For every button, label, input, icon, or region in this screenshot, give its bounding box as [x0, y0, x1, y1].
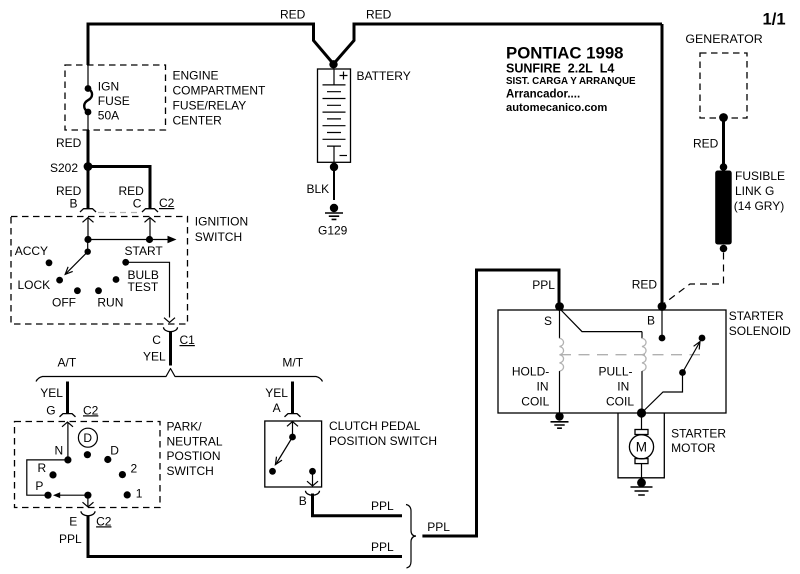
svg-text:RED: RED: [280, 8, 306, 22]
svg-text:YEL: YEL: [265, 386, 288, 400]
svg-text:COIL: COIL: [521, 395, 549, 409]
wire motor to ground: [641, 464, 643, 479]
wire S to hold-in coil: [559, 307, 561, 338]
wire YEL M/T branch to clutch switch A: [291, 382, 294, 414]
svg-text:M/T: M/T: [282, 355, 303, 369]
wire into fuse (thin inside box): [87, 65, 89, 88]
wire RED S202 to ignition B pin: [87, 167, 90, 209]
brace splitting YEL to A/T and M/T branches: [36, 369, 323, 382]
svg-text:START: START: [125, 244, 164, 258]
battery: [318, 69, 351, 162]
node battery positive junction: [329, 60, 337, 68]
wire hold-in coil to ground: [559, 371, 561, 413]
fuse IGN FUSE 50A: [84, 85, 92, 115]
svg-text:C2: C2: [159, 196, 175, 210]
svg-text:M: M: [636, 440, 647, 455]
svg-text:G129: G129: [318, 224, 348, 238]
node B terminal: [658, 302, 667, 311]
svg-text:1: 1: [136, 487, 143, 501]
connector female half at C1 (inverted): [164, 327, 178, 332]
svg-text:POSTION: POSTION: [167, 449, 221, 463]
solenoid switch arm: [642, 373, 683, 414]
svg-text:BLK: BLK: [307, 182, 330, 196]
engine compartment fuse/relay center (dashed box): [65, 65, 166, 130]
svg-text:OFF: OFF: [52, 296, 76, 310]
svg-text:1/1: 1/1: [763, 10, 786, 29]
wire START contact to C1 exit: [126, 262, 170, 317]
svg-text:C1: C1: [180, 333, 196, 347]
node solenoid output / motor feed: [637, 408, 646, 417]
wire common to E exit: [87, 495, 89, 506]
node fusible link top: [720, 163, 728, 171]
pin + battery positive: [340, 72, 348, 80]
contact D: [104, 456, 111, 463]
male arrow into A: [287, 422, 298, 427]
svg-text:C2: C2: [96, 514, 112, 528]
svg-text:SOLENOID: SOLENOID: [729, 324, 791, 338]
wire YEL A/T branch to park/neutral G: [66, 382, 69, 414]
contact 2: [119, 471, 126, 478]
svg-text:IGN: IGN: [98, 79, 119, 93]
svg-text:PPL: PPL: [371, 499, 394, 513]
pin - battery negative: [340, 155, 348, 157]
svg-text:D: D: [83, 431, 92, 445]
contact LOCK: [56, 277, 63, 284]
wire RED fuse to S202: [87, 130, 90, 167]
node generator output: [719, 113, 728, 122]
contact START: [122, 259, 129, 266]
male arrow out at C1: [164, 318, 175, 323]
connector female half at E (inverted): [81, 511, 95, 516]
wiper arrow common toward P: [60, 494, 88, 496]
wiper arm toward lower contact: [276, 437, 293, 464]
svg-text:TEST: TEST: [128, 280, 159, 294]
wire motor feed: [641, 413, 643, 430]
svg-text:IN: IN: [617, 380, 629, 394]
connector female half at pin B: [80, 209, 96, 212]
contact R: [49, 471, 56, 478]
wire PPL clutch B to brace: [313, 494, 403, 516]
svg-text:ENGINE: ENGINE: [173, 69, 219, 83]
svg-text:PPL: PPL: [371, 540, 394, 554]
svg-text:POSITION SWITCH: POSITION SWITCH: [329, 434, 437, 448]
ground G129: [325, 204, 343, 220]
svg-text:PPL: PPL: [427, 520, 450, 534]
svg-text:PPL: PPL: [532, 278, 555, 292]
wiper arm toward LOCK: [65, 252, 88, 275]
male arrow out at E: [83, 502, 94, 507]
svg-text:ACCY: ACCY: [15, 244, 48, 258]
svg-text:S202: S202: [50, 161, 78, 175]
svg-text:COIL: COIL: [606, 395, 634, 409]
contact upper fixed: [699, 335, 706, 342]
svg-text:YEL: YEL: [143, 349, 166, 363]
svg-text:LOCK: LOCK: [18, 278, 51, 292]
wire PPL park/neutral E to brace: [88, 516, 402, 557]
svg-text:B: B: [299, 494, 307, 508]
svg-text:R: R: [38, 461, 47, 475]
svg-text:FUSE/RELAY: FUSE/RELAY: [173, 99, 247, 113]
wire RED generator drop to starter solenoid B junction: [661, 24, 664, 306]
contact OFF: [74, 287, 81, 294]
svg-text:STARTER: STARTER: [729, 309, 784, 323]
svg-text:MOTOR: MOTOR: [671, 441, 716, 455]
generator (dashed box): [700, 53, 747, 118]
starter motor M: [629, 430, 653, 464]
ignition switch (dashed box): [11, 217, 188, 325]
pull-in coil: [641, 332, 643, 339]
wire PPL merged to solenoid S terminal: [422, 270, 559, 536]
svg-text:NEUTRAL: NEUTRAL: [167, 434, 223, 448]
svg-text:C: C: [152, 333, 161, 347]
node switch common: [84, 492, 91, 499]
park/neutral position switch (dashed box): [15, 422, 161, 508]
contact 1: [124, 491, 131, 498]
wire fuse to box edge (thin inside box): [87, 112, 89, 130]
svg-text:RED: RED: [366, 8, 392, 22]
svg-text:COMPARTMENT: COMPARTMENT: [173, 84, 267, 98]
node ignition feed C: [146, 236, 153, 243]
svg-text:FUSE: FUSE: [98, 94, 130, 108]
node fusible link bottom: [720, 245, 728, 253]
svg-text:LINK G: LINK G: [735, 184, 774, 198]
svg-text:HOLD-: HOLD-: [512, 365, 549, 379]
svg-text:automecanico.com: automecanico.com: [506, 102, 607, 114]
svg-text:N: N: [55, 444, 64, 458]
wire RED generator to fusible link: [722, 118, 725, 168]
wire B to fixed contact: [661, 307, 663, 338]
svg-text:SIST. CARGA Y ARRANQUE: SIST. CARGA Y ARRANQUE: [506, 76, 636, 87]
svg-text:50A: 50A: [98, 108, 119, 122]
svg-text:E: E: [69, 514, 77, 528]
svg-text:PONTIAC 1998: PONTIAC 1998: [506, 44, 624, 63]
svg-text:IGNITION: IGNITION: [195, 215, 248, 229]
connector female half at B (inverted): [306, 491, 320, 496]
connector C2 body dashes (gray): [98, 212, 140, 214]
svg-text:CLUTCH PEDAL: CLUTCH PEDAL: [329, 419, 421, 433]
connector female half at A: [285, 414, 301, 417]
wire N to P path: [27, 460, 68, 495]
male arrow into pin B: [83, 218, 94, 223]
contact P: [44, 492, 51, 499]
male arrow out at B: [307, 481, 318, 486]
svg-text:D: D: [110, 443, 119, 457]
wire B to C with arrow to START contact row: [88, 239, 168, 241]
contact BULB TEST: [113, 276, 120, 283]
wire YEL ignition C1 down to branch brace: [169, 332, 172, 366]
svg-text:GENERATOR: GENERATOR: [685, 32, 762, 46]
svg-text:PARK/: PARK/: [167, 420, 203, 434]
svg-text:2: 2: [131, 461, 138, 475]
svg-text:A: A: [273, 401, 281, 415]
contact dial: [84, 451, 91, 458]
node ignition feed B: [84, 236, 91, 243]
wire contact to B exit: [312, 471, 314, 485]
svg-text:S: S: [544, 314, 552, 328]
wire RED S202 branch to ignition C pin: [88, 167, 150, 209]
svg-text:A/T: A/T: [58, 355, 77, 369]
svg-text:PPL: PPL: [59, 532, 82, 546]
svg-text:PULL-: PULL-: [599, 365, 633, 379]
svg-text:SWITCH: SWITCH: [195, 230, 242, 244]
svg-text:G: G: [46, 403, 55, 417]
svg-text:RED: RED: [56, 136, 82, 150]
fusible link G body: [715, 171, 732, 245]
node S202: [84, 162, 93, 171]
plunger linkage (gray dashed): [560, 354, 700, 356]
connector female half at pin C: [142, 209, 158, 212]
svg-text:Arrancador....: Arrancador....: [506, 89, 580, 101]
brace merging PPL wires: [406, 505, 416, 569]
svg-text:STARTER: STARTER: [671, 426, 726, 440]
svg-text:C2: C2: [83, 403, 99, 417]
contact B fixed: [659, 335, 666, 342]
wiper pivot: [87, 240, 89, 252]
svg-text:B: B: [70, 196, 78, 210]
svg-text:RED: RED: [632, 278, 658, 292]
wire RED from battery junction to generator drop corner: [334, 24, 663, 64]
svg-text:FUSIBLE: FUSIBLE: [735, 169, 785, 183]
contact ACCY: [46, 259, 53, 266]
wire BLK battery negative to ground: [333, 171, 335, 200]
svg-text:BATTERY: BATTERY: [357, 69, 411, 83]
svg-text:RED: RED: [693, 137, 719, 151]
connector female half at G: [60, 414, 76, 417]
clutch pedal position switch (box): [265, 421, 322, 487]
ground (starter motor): [631, 478, 653, 495]
svg-text:SWITCH: SWITCH: [167, 464, 214, 478]
svg-text:RUN: RUN: [97, 296, 123, 310]
selector dial circled D: [78, 428, 97, 447]
starter solenoid (box): [498, 310, 726, 413]
hold-in coil: [560, 338, 564, 371]
contact RUN: [95, 287, 102, 294]
male arrow into G: [62, 422, 73, 427]
svg-text:(14 GRY): (14 GRY): [734, 199, 784, 213]
svg-text:YEL: YEL: [40, 386, 63, 400]
svg-text:SUNFIRE 2.2L L4: SUNFIRE 2.2L L4: [506, 62, 614, 76]
wire S to pull-in coil: [560, 309, 643, 332]
dashed tie fusible link to B junction: [662, 253, 724, 306]
contact clutch lower-left: [269, 468, 276, 475]
starter motor enclosure: [618, 413, 664, 478]
male arrow into pin C: [145, 218, 156, 223]
wire RED from IGN FUSE up and across to battery junction: [88, 24, 334, 65]
node S terminal: [555, 302, 564, 311]
contact clutch top: [289, 434, 296, 441]
contact clutch output: [309, 468, 316, 475]
svg-text:C: C: [133, 196, 142, 210]
ground (hold-in coil): [551, 412, 569, 428]
wire pull-in coil to motor node: [641, 371, 643, 413]
contact N: [64, 456, 71, 463]
svg-text:CENTER: CENTER: [173, 114, 223, 128]
svg-text:IN: IN: [537, 380, 549, 394]
node battery negative: [330, 163, 338, 171]
svg-text:B: B: [647, 314, 655, 328]
svg-text:P: P: [35, 479, 43, 493]
